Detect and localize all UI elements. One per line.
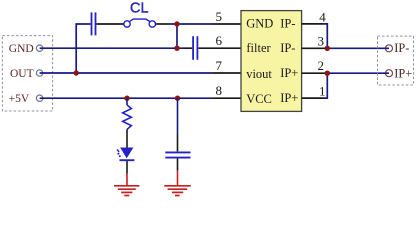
wire vertical CL row to GND row (176, 24, 178, 48)
connector J1 dashed box (GND/OUT/+5V) (2, 36, 52, 111)
wire fuse right lead (156, 23, 170, 25)
wire pin8 lead (213, 97, 241, 99)
terminal pin GND (36, 45, 42, 51)
wire LED to ground (black part) (126, 161, 128, 174)
terminal pin IP- (386, 45, 393, 52)
svg-text:CL: CL (130, 0, 149, 16)
wire pin1 corner up to IP+ net (323, 73, 327, 98)
svg-text:IP-: IP- (394, 41, 409, 55)
wire (black lead) filter cap left (184, 47, 192, 49)
svg-text:GND: GND (246, 17, 273, 31)
svg-text:7: 7 (216, 58, 223, 73)
wire LED to ground (red part) (126, 174, 128, 186)
wire pin4 lead (302, 23, 323, 25)
wire cap branch top (177, 98, 179, 135)
wire resistor to LED (126, 129, 128, 147)
LED D1 (117, 148, 134, 161)
resistor R1 (123, 105, 132, 129)
capacitor C2 (filter) (193, 36, 197, 60)
ground symbol right (164, 186, 191, 196)
IC U1 (current sensor) (241, 11, 302, 112)
wire cap top lead (black) (177, 135, 179, 151)
junction pin1/pin2 (325, 71, 330, 76)
terminal pin IP+ (386, 70, 393, 77)
wire +5V row (40, 97, 213, 99)
fuse F1 (jumper) (124, 19, 156, 27)
svg-text:IP-: IP- (280, 16, 295, 30)
svg-text:5: 5 (216, 9, 223, 24)
junction at GND row (174, 46, 179, 51)
wire IP- net to terminal (327, 47, 389, 49)
svg-text:2: 2 (318, 58, 325, 73)
junction +5V / cap branch (175, 96, 180, 101)
capacitor C1 (CL branch) (92, 12, 96, 35)
junction at CL/pin5 row (174, 21, 179, 26)
wire cap to fuse (96, 23, 123, 25)
wire resistor branch top (126, 98, 128, 105)
wire pin3 lead (302, 47, 328, 49)
junction at OUT riser (74, 70, 79, 75)
wire cap to ground (red part) (177, 171, 179, 186)
wire pin7 lead (213, 72, 241, 74)
svg-text:8: 8 (216, 83, 223, 98)
terminal pin OUT (36, 70, 42, 76)
junction pin4/pin3 (325, 46, 330, 51)
svg-text:6: 6 (216, 33, 223, 48)
terminal pin +5V (36, 95, 42, 101)
wire pin4 corner down to IP- net (323, 24, 327, 48)
junction +5V / resistor branch (124, 96, 129, 101)
wire GND row to filter cap (40, 47, 184, 49)
svg-text:IP+: IP+ (394, 66, 412, 80)
wire pin1 lead (302, 97, 323, 99)
svg-text:+5V: +5V (9, 93, 30, 105)
wire pin5 lead (213, 23, 241, 25)
ground symbol left (114, 186, 139, 196)
wire pin2 lead (302, 72, 328, 74)
capacitor C3 (bypass) (165, 152, 190, 157)
svg-text:filter: filter (246, 41, 271, 55)
svg-text:IP+: IP+ (280, 91, 298, 105)
connector J2 dashed box (IP-/IP+) (378, 36, 414, 85)
wire fuse to pin5 (169, 23, 213, 25)
svg-text:4: 4 (319, 9, 326, 24)
wire cap to ground (black part) (177, 159, 179, 171)
svg-text:GND: GND (9, 43, 34, 55)
wire (black lead) filter cap right to pin6 (198, 47, 241, 49)
svg-text:1: 1 (319, 84, 326, 99)
wire CL riser from OUT (76, 24, 90, 73)
svg-text:OUT: OUT (10, 68, 34, 80)
svg-text:IP+: IP+ (280, 66, 298, 80)
wire IP+ net to terminal (327, 72, 389, 74)
svg-text:VCC: VCC (246, 92, 272, 106)
svg-text:3: 3 (318, 33, 325, 48)
wire OUT row (40, 72, 213, 74)
svg-text:IP-: IP- (280, 41, 295, 55)
svg-text:viout: viout (246, 67, 272, 81)
